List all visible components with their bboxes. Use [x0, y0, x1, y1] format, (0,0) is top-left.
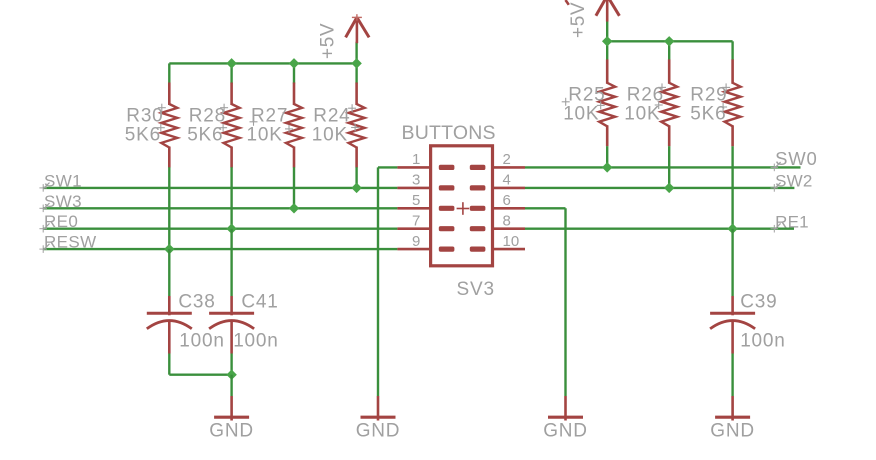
net label SW3	[39, 192, 82, 212]
net label SW1	[39, 171, 82, 191]
net label RE0	[39, 212, 78, 232]
label R28 value 5K6	[187, 125, 223, 146]
SV3 pin 5	[397, 192, 454, 211]
svg-text:R29: R29	[690, 84, 727, 105]
svg-text:10K: 10K	[624, 104, 660, 125]
wire bus to R27	[293, 63, 295, 83]
junction SW3 / R27	[289, 203, 299, 213]
svg-text:C38: C38	[178, 292, 215, 313]
wire R29 to RE1 net	[731, 146, 733, 229]
junction +5V bus / R27	[289, 58, 299, 68]
svg-text:10K: 10K	[563, 104, 599, 125]
svg-text:RE0: RE0	[44, 212, 78, 231]
SV3 pin 6	[470, 192, 525, 211]
svg-text:RESW: RESW	[44, 233, 97, 252]
capacitor C41	[209, 296, 254, 354]
net label SW2	[771, 172, 813, 192]
junction C38/C41 ground	[226, 369, 236, 379]
net label RE1	[771, 212, 809, 232]
label BUTTONS	[402, 122, 496, 144]
wire RESW to C38	[168, 249, 170, 296]
SV3 pin 10	[470, 233, 525, 252]
wire R27 to SW3 net	[293, 167, 295, 208]
label +5V (right)	[568, 2, 589, 38]
wire net SW3 (pin 5)	[43, 207, 397, 209]
svg-text:5K6: 5K6	[187, 125, 223, 146]
junction +5V bus / R28	[226, 58, 236, 68]
svg-text:4: 4	[503, 172, 511, 189]
resistor R26	[655, 59, 678, 146]
capacitor C38	[147, 296, 192, 354]
svg-text:GND: GND	[710, 421, 755, 442]
svg-text:R24: R24	[313, 105, 350, 126]
svg-text:9: 9	[412, 233, 420, 250]
svg-text:R27: R27	[251, 105, 288, 126]
wire bus to R29	[731, 41, 733, 60]
label GND (under SV3 pin 1 wire)	[356, 421, 401, 442]
label R25 name	[568, 84, 605, 105]
junction RE0 / R28	[226, 223, 236, 233]
SV3 pin 2	[470, 151, 525, 170]
capacitor C39	[710, 296, 755, 354]
SV3 pin 8	[470, 213, 525, 232]
svg-text:100n: 100n	[179, 331, 224, 352]
svg-text:7: 7	[412, 213, 420, 230]
label C41 value 100n	[233, 331, 278, 352]
label C41 name	[241, 292, 278, 313]
svg-text:SW0: SW0	[775, 148, 818, 169]
svg-text:R26: R26	[627, 84, 664, 105]
wire R24 to SW1 net	[355, 167, 357, 188]
net label SW0	[771, 148, 818, 171]
wire bus to R30	[168, 63, 170, 83]
label R26 name	[627, 84, 664, 105]
wire RE0 to C41	[230, 229, 232, 296]
svg-text:SW3: SW3	[44, 192, 82, 211]
svg-text:5K6: 5K6	[690, 104, 726, 125]
svg-text:+5V: +5V	[568, 2, 589, 38]
label R30 value 5K6	[125, 125, 161, 146]
wire R25 to SW0 net	[606, 146, 608, 167]
wire net RE0 (pin 7)	[43, 227, 397, 229]
wire R26 to SW2 net	[668, 146, 670, 188]
junction RE1 / R29	[727, 223, 737, 233]
label C39 value 100n	[740, 331, 785, 352]
wire net SW2 (pin 4)	[525, 187, 794, 189]
svg-text:100n: 100n	[233, 331, 278, 352]
label SV3	[457, 279, 495, 300]
label R27 name	[251, 105, 288, 126]
SV3 pin 9	[397, 233, 454, 252]
resistor R28	[219, 83, 240, 168]
svg-text:5K6: 5K6	[125, 125, 161, 146]
label R24 value 10K	[312, 125, 348, 146]
wire net SW1 (pin 3)	[43, 187, 397, 189]
resistor R24	[348, 83, 365, 168]
SV3 pin 3	[397, 172, 454, 191]
wire net RESW (pin 9)	[43, 248, 397, 250]
svg-text:6: 6	[503, 192, 511, 209]
svg-text:10: 10	[503, 233, 520, 250]
ground symbol (under SV3 pin 1 wire)	[361, 396, 396, 421]
label C39 name	[740, 292, 777, 313]
wire ground bus to GND	[230, 375, 232, 396]
label C38 name	[178, 292, 215, 313]
svg-text:R30: R30	[126, 105, 163, 126]
svg-text:GND: GND	[543, 421, 588, 442]
junction +5V bus / R24 / +5V	[351, 58, 361, 68]
label R28 name	[189, 105, 226, 126]
svg-text:R28: R28	[189, 105, 226, 126]
resistor R30	[157, 83, 178, 168]
svg-text:3: 3	[412, 172, 420, 189]
label +5V (left)	[318, 23, 339, 59]
label R24 name	[313, 105, 350, 126]
wire R30 to RESW net	[168, 167, 170, 249]
label GND (under C41)	[209, 421, 254, 442]
SV3 origin cross	[457, 202, 470, 215]
svg-text:SW2: SW2	[775, 172, 812, 191]
svg-text:C39: C39	[740, 292, 777, 313]
junction SW0 / R25	[602, 162, 612, 172]
junction +5V bus / R26	[664, 36, 674, 46]
label R26 value 10K	[624, 104, 660, 125]
wire +5V bus (left)	[169, 62, 356, 64]
svg-text:SW1: SW1	[44, 171, 82, 190]
wire C38 to ground bus	[169, 354, 231, 375]
net label RESW	[39, 233, 96, 253]
wire bus to R28	[230, 63, 232, 83]
svg-text:SV3: SV3	[457, 279, 495, 300]
svg-text:BUTTONS: BUTTONS	[402, 122, 496, 144]
svg-text:2: 2	[503, 151, 511, 168]
svg-text:100n: 100n	[740, 331, 785, 352]
wire SV3 pin 6 to GND	[525, 208, 566, 396]
svg-text:1: 1	[412, 151, 420, 168]
power +5V symbol (right)	[596, 0, 620, 22]
label GND (under C39)	[710, 421, 755, 442]
SV3 pin 1	[397, 151, 454, 170]
resistor R29	[719, 59, 741, 146]
wire C39 to GND	[731, 354, 733, 397]
wire net RE1 (pin 8)	[525, 227, 794, 229]
svg-text:GND: GND	[209, 421, 254, 442]
wire C41 to ground bus	[230, 354, 232, 375]
ground symbol (under C41)	[214, 396, 249, 421]
clipped symbol fragment (top edge)	[566, 0, 569, 5]
label GND (under pin 6 wire)	[543, 421, 588, 442]
label C38 value 100n	[179, 331, 224, 352]
connector SV3 body	[431, 146, 493, 266]
SV3 pin 4	[470, 172, 525, 191]
label R25 value 10K	[563, 104, 599, 125]
ground symbol (under pin 6 wire)	[548, 396, 583, 421]
power +5V symbol (left)	[346, 14, 370, 43]
junction RESW / R30	[164, 244, 174, 254]
wire +5V symbol drop (right)	[606, 21, 608, 41]
wire R28 to RE0 net	[230, 167, 232, 229]
junction +5V bus / R25	[602, 36, 612, 46]
resistor R25	[562, 59, 616, 146]
svg-text:C41: C41	[241, 292, 278, 313]
wire +5V bus (right)	[607, 40, 732, 42]
svg-text:10K: 10K	[247, 125, 283, 146]
wire SV3 pin 1 to GND	[378, 167, 397, 396]
junction SW2 / R26	[664, 183, 674, 193]
svg-text:+5V: +5V	[318, 23, 339, 59]
label R29 value 5K6	[690, 104, 726, 125]
svg-text:R25: R25	[568, 84, 605, 105]
label R30 name	[126, 105, 163, 126]
label R29 name	[690, 84, 727, 105]
ground symbol (under C39)	[715, 396, 750, 421]
svg-text:8: 8	[503, 213, 511, 230]
svg-text:GND: GND	[356, 421, 401, 442]
svg-text:5: 5	[412, 192, 420, 209]
SV3 pin 7	[397, 213, 454, 232]
label R27 value 10K	[247, 125, 283, 146]
junction SW1 / R24	[351, 183, 361, 193]
wire bus to R24 / +5V drop	[355, 42, 357, 84]
wire net SW0 (pin 2)	[525, 166, 801, 168]
wire R29 to C39	[731, 229, 733, 296]
resistor R27	[250, 83, 303, 168]
svg-text:10K: 10K	[312, 125, 348, 146]
wire bus to R26	[668, 41, 670, 60]
wire bus to R25	[606, 41, 608, 60]
svg-text:RE1: RE1	[775, 212, 809, 231]
